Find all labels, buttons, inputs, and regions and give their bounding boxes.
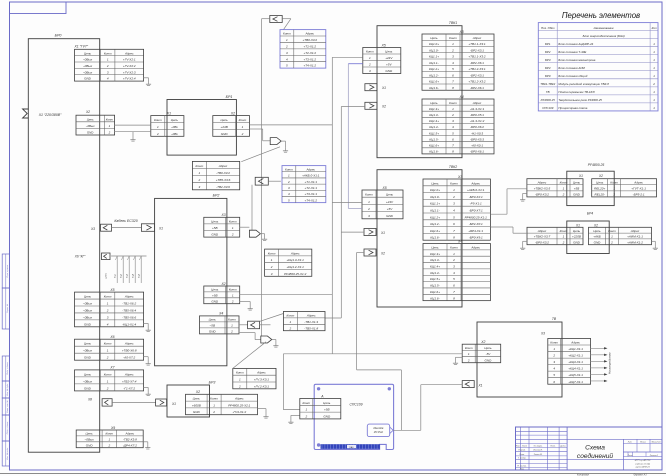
svg-text:БР0: БР0: [55, 34, 62, 38]
long vertical +5V wire: [347, 64, 349, 209]
svg-text:Листов 1: Листов 1: [649, 455, 658, 457]
wire X3 to BP2-X1: [112, 227, 142, 229]
svg-text:~0Вх: ~0Вх: [171, 132, 178, 136]
svg-text:2: 2: [106, 64, 109, 68]
svg-text:Цепь: Цепь: [323, 401, 331, 405]
svg-text:7: 7: [453, 229, 455, 233]
svg-text:2: 2: [562, 193, 565, 197]
svg-text:3: 3: [453, 202, 455, 206]
svg-text:Лист: Лист: [521, 446, 527, 448]
svg-text:+Т3-Х1:2: +Т3-Х1:2: [303, 57, 316, 61]
svg-text:2: 2: [304, 414, 307, 418]
svg-text:6: 6: [553, 380, 555, 384]
svg-text:Цепь: Цепь: [84, 342, 92, 346]
svg-text:КЦ1.2+: КЦ1.2+: [429, 67, 439, 71]
svg-text:Конт: Конт: [285, 167, 293, 171]
svg-text:Взам. инв. №: Взам. инв. №: [6, 399, 9, 412]
svg-text:GND: GND: [594, 240, 602, 244]
svg-text:кафедра ССОД: кафедра ССОД: [635, 462, 650, 465]
wire TVK2-X1 to vertical: [341, 231, 364, 233]
svg-text:6: 6: [452, 73, 454, 77]
svg-text:Х3: Х3: [220, 213, 225, 217]
wire from top connector right: [282, 18, 291, 20]
svg-text:Цепь: Цепь: [430, 101, 438, 105]
svg-text:+КЦ5-Х1:1: +КЦ5-Х1:1: [568, 373, 583, 377]
svg-text:+220В: +220В: [572, 235, 581, 239]
svg-text:Конт: Конт: [465, 346, 473, 350]
component list table: [538, 23, 658, 111]
svg-text:+ГV.2-Х3:1: +ГV.2-Х3:1: [254, 384, 269, 388]
svg-text:Х1: Х1: [381, 86, 386, 90]
long vertical wire V1: [261, 19, 263, 337]
svg-text:Адрес: Адрес: [124, 295, 134, 299]
svg-text:GND: GND: [573, 240, 581, 244]
svg-text:Конт: Конт: [196, 164, 204, 168]
svg-text:+600В: +600В: [192, 403, 201, 407]
svg-text:БР3: БР3: [209, 381, 216, 385]
svg-text:Х6: Х6: [109, 335, 114, 339]
svg-text:Цепь: Цепь: [221, 118, 229, 122]
svg-text:Конт: Конт: [104, 372, 112, 376]
svg-text:Инв. № дубл.: Инв. № дубл.: [6, 383, 9, 396]
svg-text:1: 1: [452, 42, 454, 46]
svg-text:8: 8: [452, 150, 454, 154]
svg-text:~0Вых: ~0Вых: [83, 58, 93, 62]
svg-text:Х2: Х2: [220, 282, 225, 286]
svg-text:7: 7: [452, 143, 454, 147]
svg-text:БР1: БР1: [226, 95, 233, 99]
svg-text:1: 1: [108, 438, 110, 442]
wire from top connector left: [262, 18, 270, 20]
svg-text:Кол: Кол: [652, 26, 657, 30]
svg-text:+ТВ1.2-Х3:2: +ТВ1.2-Х3:2: [468, 80, 485, 84]
svg-text:~0Вх: ~0Вх: [171, 125, 178, 129]
svg-text:КЦ1.4-: КЦ1.4-: [429, 125, 438, 129]
svg-text:-ТВ0-Х3:2: -ТВ0-Х3:2: [216, 171, 230, 175]
svg-text:Адрес: Адрес: [537, 229, 547, 233]
svg-text:4: 4: [286, 57, 288, 61]
svg-text:Адрес: Адрес: [234, 397, 244, 401]
svg-text:Адрес: Адрес: [633, 180, 643, 184]
wires TVK2-X3 to PF4800.25: [490, 213, 507, 215]
svg-text:2: 2: [652, 82, 655, 86]
connector X1 of TVK2: [364, 229, 376, 236]
svg-text:2: 2: [451, 48, 454, 52]
wires BP0-X2 to BP1-X1: [114, 124, 150, 126]
svg-text:+5В: +5В: [212, 294, 218, 298]
svg-text:GND: GND: [573, 193, 581, 197]
svg-text:НГТУ гр. АП-713: НГТУ гр. АП-713: [635, 459, 651, 462]
svg-text:Х7: Х7: [109, 366, 114, 370]
svg-text:1: 1: [305, 408, 307, 412]
svg-text:+Т1-Х1:1: +Т1-Х1:1: [304, 180, 317, 184]
svg-text:КЦ1.4+: КЦ1.4+: [430, 265, 440, 269]
blue address table 1 (top): [280, 30, 326, 69]
svg-text:Конт: Конт: [302, 401, 310, 405]
title block (основная надпись): [516, 427, 663, 470]
svg-text:Масса: Масса: [640, 441, 646, 443]
svg-text:4: 4: [288, 192, 290, 196]
cable connector to blue table 2: [255, 177, 268, 185]
svg-text:Цепь: Цепь: [209, 318, 217, 322]
svg-text:Лит.: Лит.: [627, 441, 633, 443]
svg-text:+АКБ: +АКБ: [593, 235, 601, 239]
ground for X6: [144, 356, 149, 358]
svg-text:+КЦ1.2-Х1:1: +КЦ1.2-Х1:1: [287, 265, 305, 269]
svg-text:Изм.: Изм.: [516, 446, 521, 448]
svg-text:КЦ1.1-: КЦ1.1-: [430, 209, 439, 213]
svg-text:1: 1: [157, 125, 159, 129]
svg-text:Адрес: Адрес: [125, 432, 135, 436]
svg-text:4: 4: [553, 367, 555, 371]
svg-text:+ТВК2-Х3:5: +ТВК2-Х3:5: [534, 187, 551, 191]
svg-text:+ТВ1.1-Х3:1: +ТВ1.1-Х3:1: [468, 42, 485, 46]
wire +24V from BP1-X2 to vertical: [250, 124, 333, 126]
svg-text:Модуль релейной коммутации ТВК: Модуль релейной коммутации ТВК-8: [558, 82, 609, 86]
ground for PF left: [523, 192, 527, 194]
svg-text:5: 5: [453, 277, 455, 281]
svg-text:Адрес: Адрес: [304, 32, 314, 36]
svg-text:соединений: соединений: [577, 452, 613, 460]
svg-text:2: 2: [467, 358, 470, 362]
svg-text:1: 1: [613, 187, 615, 191]
svg-text:+КЦ4-Х1:1: +КЦ4-Х1:1: [568, 367, 583, 371]
svg-text:Иванов И.: Иванов И.: [533, 450, 543, 452]
svg-text:Х5: Х5: [109, 288, 114, 292]
svg-text:Цепь: Цепь: [386, 193, 394, 197]
svg-text:+ГV-Х2:1: +ГV-Х2:1: [123, 58, 136, 62]
wire +5V into TVK2-X5: [348, 207, 362, 209]
svg-text:-БР0-Х5:3: -БР0-Х5:3: [470, 137, 484, 141]
svg-text:GND: GND: [221, 132, 229, 136]
svg-text:Адрес: Адрес: [306, 313, 316, 317]
svg-text:Discrete: Discrete: [373, 426, 383, 430]
pentagon below BP2-X4: [261, 336, 272, 343]
address table above BP3-X2: [233, 368, 276, 388]
svg-text:БР0: БР0: [545, 74, 551, 78]
svg-text:КЦ1.2-: КЦ1.2-: [430, 222, 439, 226]
svg-text:-БР0-Х3:2: -БР0-Х3:2: [535, 240, 549, 244]
svg-text:I/O Port: I/O Port: [374, 430, 384, 434]
svg-text:Х4: Х4: [459, 95, 464, 99]
connector X1 of TV: [462, 381, 474, 388]
svg-text:-БР0-Х9:1: -БР0-Х9:1: [469, 236, 483, 240]
svg-text:КЦ1.6-: КЦ1.6-: [430, 296, 439, 300]
svg-text:КЦ1.2-: КЦ1.2-: [429, 73, 438, 77]
svg-text:4: 4: [107, 77, 109, 81]
svg-text:2: 2: [270, 265, 273, 269]
svg-text:КЦ1.5-: КЦ1.5-: [430, 284, 439, 288]
svg-text:+Т4-Х1:2: +Т4-Х1:2: [303, 64, 316, 68]
svg-text:+5В: +5В: [324, 408, 330, 412]
processor board SPS109 (СПС109) blue outline: [314, 384, 393, 449]
svg-text:3: 3: [452, 119, 454, 123]
svg-text:7: 7: [452, 80, 454, 84]
svg-text:+ТВ1.1-Х3:2: +ТВ1.1-Х3:2: [468, 55, 485, 59]
svg-text:Конт: Конт: [610, 180, 618, 184]
svg-text:Х2: Х2: [598, 174, 603, 178]
svg-text:БР2: БР2: [213, 194, 220, 198]
svg-text:БР4: БР4: [545, 66, 551, 70]
svg-text:2: 2: [231, 233, 234, 237]
svg-text:2: 2: [212, 410, 215, 414]
svg-text:5: 5: [553, 373, 555, 377]
svg-text:КЦ1.6-: КЦ1.6-: [429, 86, 438, 90]
svg-text:~0Вых: ~0Вых: [85, 438, 95, 442]
svg-text:1: 1: [232, 294, 234, 298]
svg-text:Дата: Дата: [559, 446, 566, 448]
svg-text:Кабель ЕС320: Кабель ЕС320: [114, 219, 137, 223]
svg-text:-БР0-Х6:2: -БР0-Х6:2: [470, 125, 484, 129]
svg-text:-ТВ5-Х1:8: -ТВ5-Х1:8: [304, 326, 318, 330]
svg-text:-Н1-Х0:3: -Н1-Х0:3: [471, 131, 483, 135]
svg-text:Х3: Х3: [90, 227, 95, 231]
wire BP2-X2 to +24 vertical: [240, 293, 333, 295]
svg-text:Цепь: Цепь: [430, 36, 438, 40]
svg-text:1: 1: [368, 200, 370, 204]
mains input symbol and label X1 220/380V: [23, 109, 29, 118]
svg-text:Блок энергообеспечения (БЭА): Блок энергообеспечения (БЭА): [583, 34, 625, 38]
svg-text:~0Вых: ~0Вых: [83, 308, 93, 312]
svg-text:-БР2-Х6:1: -БР2-Х6:1: [470, 61, 484, 65]
svg-text:+ГV-Х2:3: +ГV-Х2:3: [123, 70, 136, 74]
svg-text:1: 1: [271, 258, 273, 262]
svg-text:Цепь: Цепь: [84, 372, 92, 376]
svg-text:КЦ1.0-: КЦ1.0-: [429, 48, 438, 52]
svg-text:+ТВ5-Х3:6: +ТВ5-Х3:6: [216, 178, 231, 182]
svg-text:Блок питания Т-40Е: Блок питания Т-40Е: [558, 50, 586, 54]
svg-text:Х2: Х2: [195, 390, 200, 394]
svg-text:Х1 “220/380В”: Х1 “220/380В”: [38, 113, 62, 117]
ground for BP4 right: [652, 240, 656, 242]
svg-text:Конт: Конт: [154, 118, 162, 122]
svg-text:Утв.: Утв.: [520, 469, 525, 471]
svg-text:Х2: Х2: [380, 252, 385, 256]
svg-text:Конт: Конт: [105, 432, 113, 436]
svg-text:3: 3: [288, 186, 290, 190]
svg-text:1: 1: [199, 171, 201, 175]
svg-text:БР4: БР4: [587, 212, 593, 216]
svg-text:GND: GND: [87, 131, 93, 135]
wire into SPS109 table A pin1: [283, 409, 299, 411]
svg-text:-ДР4-Х7:2: -ДР4-Х7:2: [123, 443, 137, 447]
svg-text:Ц.КЕ1: Ц.КЕ1: [105, 272, 107, 279]
svg-text:1: 1: [468, 352, 470, 356]
svg-text:Цепь: Цепь: [573, 229, 581, 233]
svg-text:Конт: Конт: [287, 313, 295, 317]
svg-text:+24В: +24В: [221, 125, 228, 129]
svg-text:GND: GND: [211, 233, 219, 237]
svg-text:Конт: Конт: [106, 117, 114, 121]
svg-text:Пров.: Пров.: [519, 454, 525, 456]
svg-text:-Г1-Х7:2: -Г1-Х7:2: [123, 386, 135, 390]
svg-text:Зимин М.: Зимин М.: [534, 454, 543, 456]
corner screws: [317, 387, 320, 390]
svg-text:-А1.3-Х1:1: -А1.3-Х1:1: [470, 107, 485, 111]
svg-text:4: 4: [453, 271, 455, 275]
svg-text:4: 4: [107, 322, 109, 326]
svg-text:Х5: Х5: [381, 43, 386, 47]
svg-text:Х3: Х3: [459, 30, 464, 34]
svg-text:КЦ1.0+: КЦ1.0+: [429, 42, 439, 46]
svg-text:Цепь: Цепь: [171, 118, 179, 122]
svg-text:Подп. и дата: Подп. и дата: [6, 421, 9, 434]
svg-text:-ТВ5-Х6:6: -ТВ5-Х6:6: [122, 315, 136, 319]
svg-text:Цепь: Цепь: [211, 219, 219, 223]
svg-text:3: 3: [107, 315, 109, 319]
svg-text:Х4: Х4: [457, 239, 462, 243]
svg-text:Х8: Х8: [87, 398, 92, 402]
svg-text:2: 2: [289, 326, 292, 330]
svg-text:1: 1: [107, 379, 109, 383]
svg-text:Х2: Х2: [85, 110, 90, 114]
svg-text:+ГV.3-Х3:1: +ГV.3-Х3:1: [254, 378, 269, 382]
svg-text:Адрес: Адрес: [124, 342, 134, 346]
svg-text:БР1: БР1: [545, 42, 551, 46]
Discrete I/O Port box: [367, 424, 389, 437]
svg-text:Блок питания магнетрона: Блок питания магнетрона: [558, 58, 595, 62]
bottom paper edge line: [0, 473, 666, 475]
right table of BP4: [589, 227, 652, 244]
svg-text:PF4800.25-Х2:1: PF4800.25-Х2:1: [228, 403, 250, 407]
wire Discrete port to TV: [393, 429, 421, 431]
svg-text:5: 5: [286, 64, 288, 68]
svg-text:GND: GND: [86, 443, 94, 447]
svg-text:КЦ1.5+: КЦ1.5+: [429, 131, 439, 135]
svg-text:+ТВК2-Х3:7: +ТВК2-Х3:7: [534, 235, 551, 239]
svg-text:Х1: Х1: [575, 224, 580, 228]
svg-text:Блок питания АнД40Р-24: Блок питания АнД40Р-24: [558, 42, 593, 46]
ground for BP3-X2: [258, 408, 267, 410]
svg-text:Подп.: Подп.: [550, 445, 556, 448]
svg-text:+ГVТ-Х1:1: +ГVТ-Х1:1: [631, 187, 646, 191]
svg-text:КЦ1.1+: КЦ1.1+: [429, 55, 439, 59]
svg-text:3: 3: [271, 272, 273, 276]
blue address table 2: [282, 166, 326, 203]
svg-text:+Т2-Х1:1: +Т2-Х1:1: [304, 186, 317, 190]
wire TVK1-X2 down to TVK2-X1: [341, 106, 365, 108]
svg-text:4: 4: [453, 209, 455, 213]
svg-text:2: 2: [451, 113, 454, 117]
svg-text:Конт: Конт: [449, 101, 457, 105]
svg-text:Цепь: Цепь: [484, 346, 492, 350]
ground from table A pin2: [291, 414, 300, 416]
svg-text:Цепь: Цепь: [431, 245, 439, 249]
svg-text:Цепь: Цепь: [86, 432, 94, 436]
svg-text:2: 2: [287, 180, 290, 184]
svg-text:Адрес: Адрес: [124, 51, 134, 55]
svg-text:Конт: Конт: [229, 219, 237, 223]
wire X8 to BP3-X1: [112, 401, 156, 403]
svg-text:Адрес: Адрес: [124, 372, 134, 376]
svg-text:Конт: Конт: [450, 245, 458, 249]
svg-text:+КЦ1-Х1:1: +КЦ1-Х1:1: [568, 347, 583, 351]
svg-text:КЦ1.6+: КЦ1.6+: [430, 229, 440, 233]
svg-text:Подп. и дата: Подп. и дата: [6, 361, 9, 374]
svg-text:2: 2: [198, 178, 201, 182]
ground for BP2-X2: [240, 301, 251, 303]
svg-text:Цепь: Цепь: [84, 51, 92, 55]
svg-text:2: 2: [156, 132, 159, 136]
svg-text:GND: GND: [323, 414, 331, 418]
long vertical +24V wire: [331, 57, 333, 354]
svg-text:1: 1: [107, 58, 109, 62]
wire TVK2-X2 down to Discrete port net: [357, 252, 364, 254]
svg-text:Конт: Конт: [449, 36, 457, 40]
svg-text:ТВК1: ТВК1: [449, 21, 457, 25]
svg-text:5: 5: [288, 198, 290, 202]
long -5V wire to TV-X2: [283, 353, 462, 355]
svg-text:КЦ1.5-: КЦ1.5-: [429, 137, 438, 141]
svg-text:Схема: Схема: [585, 445, 605, 452]
svg-text:-БР0-Х6:1: -БР0-Х6:1: [470, 150, 484, 154]
svg-text:КЦ1.2+: КЦ1.2+: [430, 215, 440, 219]
svg-text:Адрес: Адрес: [630, 229, 640, 233]
svg-text:Х4: Х4: [218, 312, 223, 316]
svg-text:-ТВ1-Х6:2: -ТВ1-Х6:2: [122, 301, 136, 305]
svg-text:На устройство: На устройство: [608, 352, 612, 374]
svg-text:Конт: Конт: [104, 295, 112, 299]
svg-text:Масштаб: Масштаб: [652, 441, 662, 443]
svg-text:Х1: Х1: [477, 383, 482, 387]
ground for X5: [144, 322, 149, 324]
svg-text:8: 8: [453, 296, 455, 300]
svg-text:+ГV-Х2:4: +ГV-Х2:4: [123, 77, 136, 81]
svg-text:+Т2-Х1:2: +Т2-Х1:2: [303, 51, 316, 55]
address table right of BP2-X4: [283, 312, 325, 331]
svg-text:Цепь: Цепь: [87, 117, 94, 121]
svg-text:~0Вых: ~0Вых: [83, 301, 93, 305]
svg-text:КЦ1.5+: КЦ1.5+: [430, 277, 440, 281]
ground for TV-X2: [456, 356, 463, 358]
svg-text:REL20-: REL20-: [595, 193, 605, 197]
svg-text:GND: GND: [84, 77, 92, 81]
svg-text:4: 4: [452, 125, 454, 129]
svg-text:Цепь: Цепь: [596, 180, 604, 184]
svg-text:Поз. Обоз: Поз. Обоз: [541, 26, 555, 30]
svg-text:5: 5: [452, 67, 454, 71]
ground between BP0 and BP1: [132, 132, 134, 137]
svg-text:-БР5-2:1: -БР5-2:1: [633, 193, 645, 197]
svg-text:Х2: Х2: [381, 105, 386, 109]
svg-text:Конт: Конт: [104, 51, 112, 55]
svg-text:Адрес: Адрес: [570, 341, 580, 345]
svg-text:+5В: +5В: [212, 226, 218, 230]
svg-text:-БР0-Х5:1: -БР0-Х5:1: [470, 113, 484, 117]
svg-text:КЦ1.6+: КЦ1.6+: [429, 143, 439, 147]
svg-text:+24V: +24V: [386, 200, 394, 204]
svg-text:4: 4: [452, 61, 454, 65]
svg-text:2: 2: [106, 356, 109, 360]
svg-text:КЦ1.4+: КЦ1.4+: [429, 119, 439, 123]
svg-text:3: 3: [452, 55, 454, 59]
arrows to devices: [591, 347, 605, 349]
svg-text:КЦ1.1-: КЦ1.1-: [429, 61, 438, 65]
svg-text:+АИМ-Х1:1: +АИМ-Х1:1: [627, 235, 643, 239]
svg-text:Адрес: Адрес: [472, 36, 482, 40]
top cable connector: [270, 16, 282, 23]
svg-text:+24V: +24V: [385, 56, 393, 60]
connector X6 KG: [102, 253, 111, 260]
svg-text:-ТВ1-Х1:4: -ТВ1-Х1:4: [304, 320, 318, 324]
svg-text:+5V: +5V: [386, 63, 392, 67]
svg-text:+КЦ1.3-Х1:1: +КЦ1.3-Х1:1: [287, 258, 305, 262]
svg-text:Инв. № подл.: Инв. № подл.: [6, 447, 9, 460]
svg-text:1: 1: [452, 107, 454, 111]
address table right of BP2-X3: [265, 249, 312, 276]
svg-text:5: 5: [452, 131, 454, 135]
svg-text:группа АПМ-19: группа АПМ-19: [635, 466, 650, 469]
